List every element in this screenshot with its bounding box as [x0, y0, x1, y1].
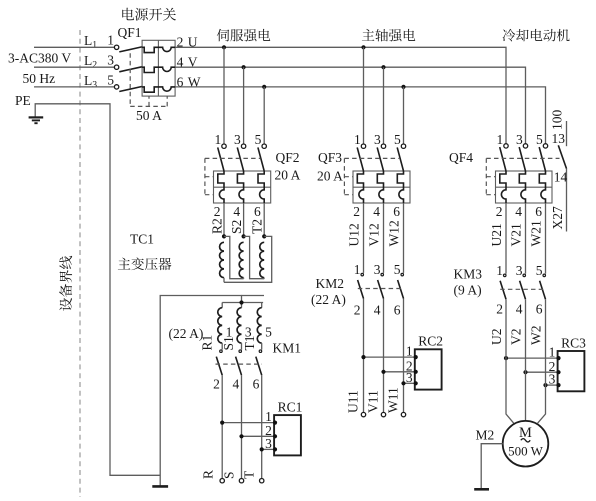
node star point [239, 300, 243, 304]
motor AC symbol [521, 439, 530, 442]
wire RC1 pin 1 [222, 422, 274, 424]
junction RC1 pin 2 [273, 434, 277, 438]
wire delta link 1-2 [224, 236, 244, 278]
ground motor earth bar [474, 488, 489, 491]
svg-text:QF1: QF1 [118, 25, 142, 40]
node bus tap QF2 [222, 45, 226, 49]
svg-text:RC1: RC1 [278, 400, 303, 415]
svg-text:T: T [242, 470, 257, 479]
svg-text:KM1: KM1 [273, 341, 302, 356]
svg-text:1: 1 [496, 132, 503, 147]
svg-text:3: 3 [549, 372, 556, 387]
secondary winding 2 stub [241, 303, 243, 308]
svg-text:4: 4 [373, 204, 380, 219]
breaker QF2 pole terminal 3 [241, 144, 245, 148]
wire RC3 pin 2 [526, 371, 558, 373]
contactor KM1 pole [239, 350, 242, 353]
terminal R [220, 479, 224, 483]
secondary winding 1 [218, 308, 222, 343]
primary winding 2 lead [243, 278, 245, 279]
terminal U11 [361, 412, 365, 416]
label 冷却电动机 coolant motor [503, 29, 570, 42]
node bus tap QF3 [361, 45, 365, 49]
junction RC1 tap 2 [239, 434, 243, 438]
wire RC2 pin 3 [404, 382, 415, 384]
svg-text:2: 2 [496, 204, 503, 219]
breaker QF3 body [353, 171, 410, 203]
label 伺服强电 servo power [217, 29, 270, 42]
svg-text:(22 A): (22 A) [169, 326, 204, 341]
node transformer primary S2 [242, 234, 246, 238]
wire RC2 pin 1 [364, 356, 415, 358]
svg-text:S1: S1 [221, 336, 236, 350]
svg-text:W11: W11 [386, 387, 401, 413]
wire V12 [383, 203, 385, 273]
secondary winding 2 [237, 308, 241, 343]
label 主轴强电 spindle power [362, 29, 415, 42]
svg-text:3: 3 [234, 132, 241, 147]
svg-text:V: V [188, 55, 198, 70]
svg-text:KM3: KM3 [454, 267, 483, 282]
wire bus to QF2 pole [263, 87, 265, 144]
svg-text:6: 6 [253, 377, 260, 392]
svg-text:6: 6 [254, 204, 261, 219]
junction RC3 pin 2 [556, 370, 560, 374]
svg-text:U: U [188, 35, 198, 50]
svg-text:2: 2 [214, 204, 221, 219]
wire RC3 pin 1 [506, 357, 558, 359]
svg-text:20 A: 20 A [317, 169, 343, 184]
RC suppressor RC2 box [415, 349, 442, 389]
wire U2 to motor [506, 299, 514, 423]
wire U12 [363, 203, 365, 273]
svg-text:R2: R2 [210, 218, 225, 234]
breaker QF4 pole terminal 1 [504, 144, 508, 148]
wire star point to earth [160, 296, 241, 487]
wire W2 to motor [538, 299, 546, 423]
svg-text:W2: W2 [529, 326, 544, 346]
contactor KM2 pole [401, 273, 404, 276]
svg-text:5: 5 [536, 132, 543, 147]
RC suppressor RC3 box [558, 351, 585, 391]
svg-text:2: 2 [354, 303, 361, 318]
svg-text:4: 4 [516, 302, 523, 317]
svg-text:4: 4 [233, 204, 240, 219]
label 电源开关 power switch [122, 8, 176, 21]
svg-text:3: 3 [516, 132, 523, 147]
svg-text:2: 2 [213, 377, 220, 392]
contactor KM3 pole [523, 274, 526, 277]
dashed release linkage QF4 [486, 157, 559, 159]
svg-text:3-AC380 V: 3-AC380 V [8, 51, 71, 66]
wire KM2 output [363, 299, 365, 413]
node transformer primary T2 [262, 234, 266, 238]
svg-text:3: 3 [406, 370, 413, 385]
node transformer primary R2 [222, 234, 226, 238]
breaker QF4 pole terminal 3 [523, 144, 527, 148]
wire bus to QF2 pole [223, 47, 225, 144]
svg-text:2: 2 [496, 302, 503, 317]
secondary winding 2 lead [241, 343, 243, 350]
breaker QF2 pole terminal 1 [222, 144, 226, 148]
dashed linkage KM2 [358, 288, 402, 290]
breaker QF2 pole terminal 5 [262, 144, 266, 148]
wire motor earth [481, 444, 503, 489]
node bus tap QF3 [381, 65, 385, 69]
svg-text:V12: V12 [366, 223, 381, 246]
terminal V11 [381, 412, 385, 416]
junction RC3 pin 3 [556, 383, 560, 387]
dashed release linkage QF3 [344, 157, 400, 159]
equipment boundary dashed line [79, 30, 81, 497]
svg-text:R: R [201, 470, 216, 479]
svg-text:V21: V21 [508, 223, 523, 246]
svg-text:50 A: 50 A [136, 108, 162, 123]
svg-text:5: 5 [265, 324, 272, 339]
wire W12 [403, 203, 405, 273]
wire V2 to motor [525, 299, 527, 421]
secondary winding 3 stub [261, 303, 263, 308]
primary winding 1 lead [223, 278, 225, 283]
breaker QF3 pole terminal 3 [381, 144, 385, 148]
node bus tap QF3 [401, 85, 405, 89]
contactor KM3 pole [543, 274, 546, 277]
svg-text:1: 1 [354, 132, 361, 147]
svg-text:RC2: RC2 [418, 334, 443, 349]
contactor KM3 pole [504, 274, 507, 277]
svg-text:4: 4 [232, 377, 239, 392]
motor M2 [503, 421, 549, 467]
wire RC3 pin 3 [546, 384, 558, 386]
svg-text:2: 2 [353, 204, 360, 219]
svg-text:U11: U11 [346, 390, 361, 413]
svg-text:R1: R1 [199, 335, 214, 351]
dashed release linkage QF2 [205, 157, 261, 159]
breaker QF1 body [114, 40, 175, 96]
svg-text:3: 3 [107, 53, 114, 68]
terminal S [239, 479, 243, 483]
wire bus to QF3 pole [383, 67, 385, 144]
wire KM2 output [383, 299, 385, 413]
node bus tap QF2 [242, 65, 246, 69]
svg-text:3: 3 [516, 263, 523, 278]
svg-text:TC1: TC1 [130, 232, 154, 247]
label 主变压器 main transformer [118, 257, 171, 270]
breaker QF2 body [214, 171, 271, 203]
svg-text:U21: U21 [489, 223, 504, 246]
svg-text:1: 1 [406, 344, 413, 359]
wire S2 [243, 203, 245, 236]
svg-text:QF3: QF3 [318, 150, 342, 165]
wire PE conductor [35, 104, 160, 476]
junction RC2 tap 1 [361, 355, 365, 359]
junction RC2 tap 3 [401, 381, 405, 385]
wire bus to QF2 pole [243, 67, 245, 144]
wire bus to QF3 pole [363, 47, 365, 144]
wire bus W to QF4 pole3 [175, 87, 545, 144]
svg-text:1: 1 [549, 345, 556, 360]
svg-text:1: 1 [214, 132, 221, 147]
svg-text:6: 6 [535, 204, 542, 219]
primary winding 1 [220, 242, 224, 277]
breaker QF4 pole terminal 5 [543, 144, 547, 148]
junction RC2 tap 2 [381, 370, 385, 374]
breaker QF3 pole terminal 1 [361, 144, 365, 148]
label 设备界线 equipment boundary [59, 256, 72, 311]
RC suppressor RC1 box [274, 415, 301, 455]
svg-text:T2: T2 [250, 219, 265, 234]
wire R2 [223, 203, 225, 236]
svg-text:5: 5 [394, 262, 401, 277]
junction RC2 pin 1 [414, 355, 418, 359]
wire bus V to QF4 pole2 [175, 67, 525, 144]
secondary winding 1 lead [221, 343, 223, 350]
wire 14 to X27 [566, 169, 568, 232]
ground PE earth symbol [29, 117, 44, 123]
junction RC1 pin 3 [273, 447, 277, 451]
svg-text:RC3: RC3 [561, 335, 586, 350]
svg-text:W21: W21 [528, 220, 543, 246]
wire 100 to QF4 aux contact 13 [566, 121, 568, 146]
svg-text:6: 6 [394, 303, 401, 318]
junction RC3 tap 2 [523, 370, 527, 374]
wire KM1 output T1 [261, 375, 263, 478]
svg-text:2: 2 [177, 35, 184, 50]
svg-text:6: 6 [177, 75, 184, 90]
svg-text:PE: PE [15, 93, 31, 108]
svg-text:4: 4 [515, 204, 522, 219]
wire bus to QF3 pole [403, 87, 405, 144]
svg-text:1: 1 [354, 262, 361, 277]
wire delta link 3-1 [224, 236, 272, 282]
terminal T [260, 479, 264, 483]
svg-text:1: 1 [496, 263, 503, 278]
node bus tap QF2 [262, 85, 266, 89]
wire L3 into QF1 [34, 86, 114, 88]
wire star line right stub [242, 295, 265, 297]
svg-text:14: 14 [554, 170, 568, 185]
contactor KM1 pole [220, 350, 223, 353]
svg-text:5: 5 [394, 132, 401, 147]
dashed linkage QF1 [129, 53, 131, 106]
junction RC2 pin 3 [414, 381, 418, 385]
ground TC1 neutral earth bar [152, 485, 168, 488]
wire RC1 pin 3 [262, 448, 274, 450]
svg-text:W12: W12 [386, 220, 401, 246]
svg-text:3: 3 [374, 132, 381, 147]
svg-text:S2: S2 [229, 220, 244, 234]
svg-text:50 Hz: 50 Hz [23, 71, 56, 86]
svg-text:M2: M2 [476, 428, 495, 443]
secondary winding 3 [257, 308, 261, 343]
svg-text:5: 5 [255, 132, 262, 147]
primary winding 3 lead [263, 278, 265, 279]
svg-text:U2: U2 [489, 329, 504, 346]
svg-text:M: M [519, 425, 532, 441]
contact QF4 aux 13-14 blade [558, 145, 566, 168]
secondary winding 3 lead [261, 343, 263, 350]
svg-text:5: 5 [107, 73, 114, 88]
svg-text:V11: V11 [366, 390, 381, 413]
wire delta link 2-3 [244, 236, 265, 278]
svg-text:20 A: 20 A [275, 168, 301, 183]
svg-text:W: W [188, 75, 201, 90]
wire L1 into QF1 [34, 46, 114, 48]
junction RC2 pin 2 [414, 370, 418, 374]
wire RC1 pin 2 [242, 435, 275, 437]
wire U21 [505, 203, 507, 274]
svg-text:QF4: QF4 [449, 150, 473, 165]
svg-text:S: S [222, 471, 237, 479]
wire V21 [525, 203, 527, 274]
svg-text:5: 5 [536, 263, 543, 278]
svg-text:X27: X27 [550, 206, 565, 229]
svg-text:1: 1 [107, 33, 114, 48]
svg-text:3: 3 [265, 436, 272, 451]
dashed linkage KM3 [500, 288, 543, 290]
terminal W11 [401, 412, 405, 416]
contactor KM2 pole [361, 273, 364, 276]
svg-text:500 W: 500 W [508, 444, 544, 459]
breaker QF3 pole terminal 5 [401, 144, 405, 148]
contactor KM1 pole [259, 350, 262, 353]
wire RC2 pin 2 [384, 371, 415, 373]
junction RC3 tap 3 [543, 383, 547, 387]
svg-text:4: 4 [177, 55, 184, 70]
svg-text:6: 6 [393, 204, 400, 219]
wire KM2 output [403, 299, 405, 413]
breaker QF4 body [496, 171, 553, 203]
junction RC1 tap 1 [220, 421, 224, 425]
junction RC1 pin 1 [273, 421, 277, 425]
svg-text:4: 4 [374, 303, 381, 318]
contactor KM2 pole [381, 273, 384, 276]
wire star point line [222, 302, 263, 304]
junction RC1 tap 3 [260, 447, 264, 451]
wire L2 into QF1 [34, 66, 114, 68]
svg-text:T1: T1 [242, 336, 257, 351]
svg-text:100: 100 [550, 110, 565, 131]
secondary winding 1 stub [221, 303, 223, 308]
wire KM1 output R1 [221, 375, 223, 478]
svg-text:V2: V2 [508, 329, 523, 346]
svg-text:U12: U12 [346, 223, 361, 246]
primary winding 2 [239, 242, 243, 277]
primary winding 3 [260, 242, 264, 277]
svg-text:KM2: KM2 [316, 276, 345, 291]
svg-text:(22 A): (22 A) [311, 292, 346, 307]
svg-text:3: 3 [374, 262, 381, 277]
wire W21 [545, 203, 547, 274]
wire T2 [263, 203, 265, 236]
svg-text:QF2: QF2 [276, 150, 300, 165]
junction RC3 pin 1 [556, 356, 560, 360]
svg-text:6: 6 [536, 302, 543, 317]
svg-text:(9 A): (9 A) [454, 283, 482, 298]
wire KM1 output S1 [241, 375, 243, 478]
wire bus U to QF4 pole1 [175, 47, 506, 144]
dashed linkage KM1 [216, 363, 263, 365]
junction RC3 tap 1 [504, 356, 508, 360]
svg-text:13: 13 [552, 131, 566, 146]
